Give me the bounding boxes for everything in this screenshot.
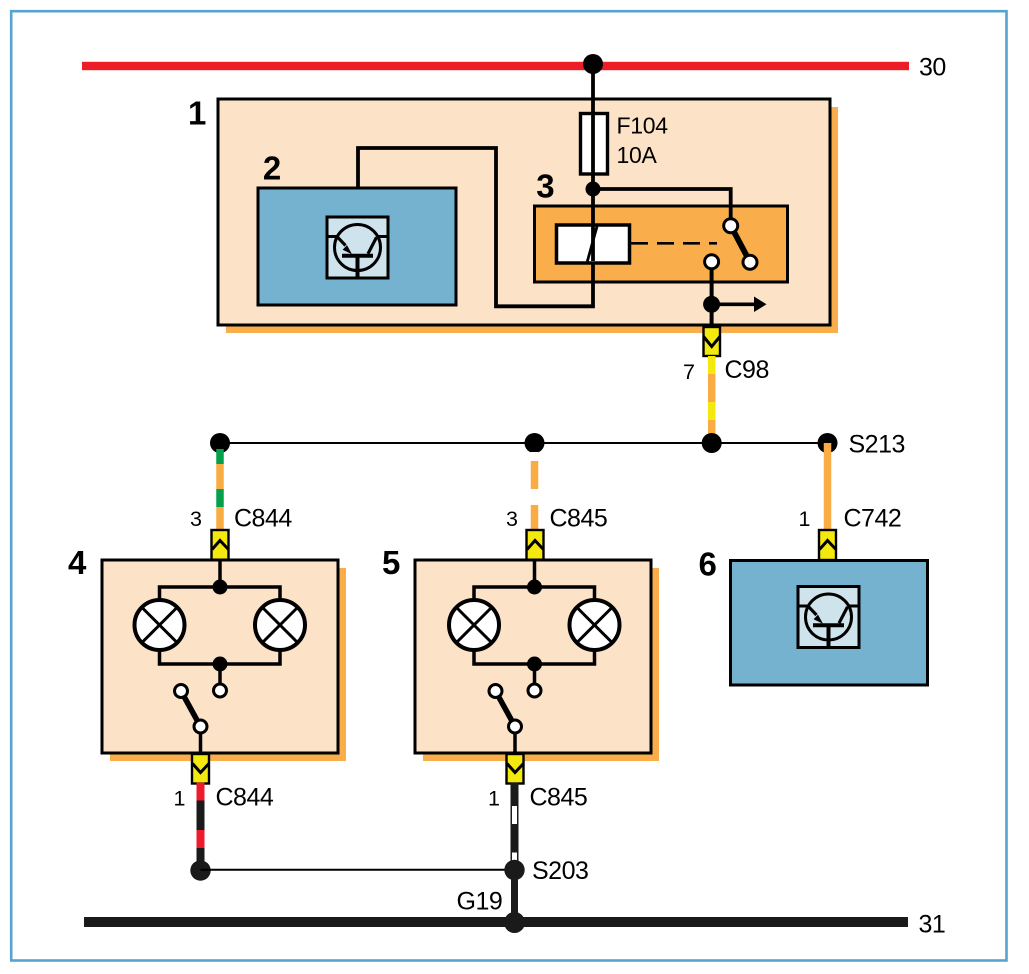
svg-text:2: 2 [263,150,281,187]
svg-text:C844: C844 [216,784,274,812]
svg-text:3: 3 [190,507,202,531]
svg-text:30: 30 [919,54,946,82]
svg-text:1: 1 [174,787,186,811]
svg-text:C844: C844 [234,505,292,533]
svg-text:C845: C845 [550,505,608,533]
svg-text:C845: C845 [530,784,588,812]
svg-text:6: 6 [699,546,717,583]
svg-text:S213: S213 [849,431,905,459]
svg-text:1: 1 [799,507,811,531]
svg-text:1: 1 [488,787,500,811]
svg-text:F104: F104 [617,113,669,139]
svg-text:C742: C742 [844,505,902,533]
svg-text:3: 3 [506,507,518,531]
svg-text:4: 4 [68,544,87,581]
svg-text:10A: 10A [617,142,658,168]
svg-text:1: 1 [188,95,206,132]
svg-text:7: 7 [683,360,695,384]
svg-text:5: 5 [382,544,400,581]
svg-text:C98: C98 [725,356,769,384]
svg-text:G19: G19 [457,888,503,916]
svg-text:3: 3 [536,168,554,205]
svg-text:31: 31 [919,911,946,939]
svg-text:S203: S203 [532,857,588,885]
